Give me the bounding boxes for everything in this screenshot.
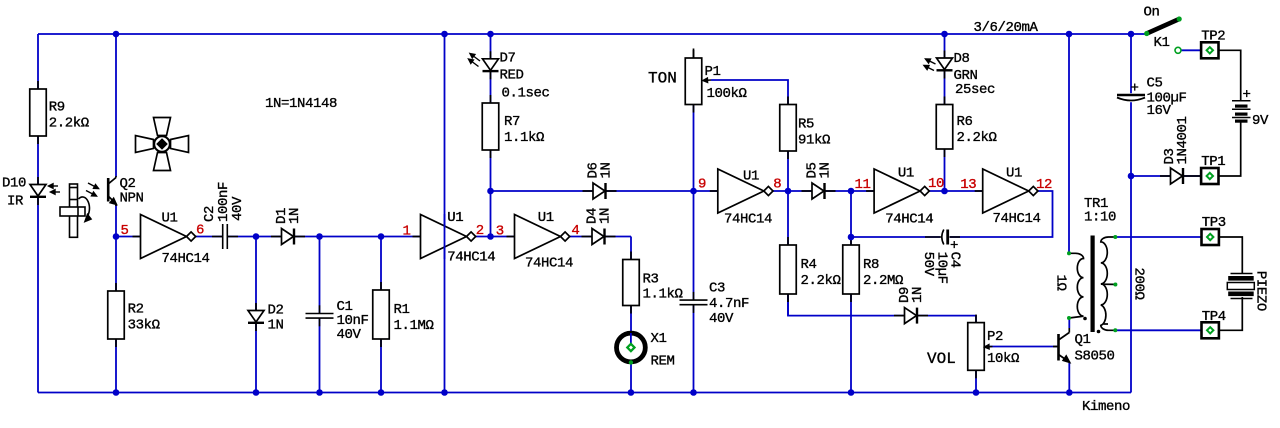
junction row1 C1: [316, 233, 323, 240]
Q2 light arrow 2: [86, 191, 97, 197]
svg-text:2.2MΩ: 2.2MΩ: [863, 273, 903, 289]
svg-text:R9: R9: [49, 100, 65, 116]
svg-text:TP2: TP2: [1201, 29, 1225, 45]
op-amp U1 inverter A pins 5-6: [133, 215, 196, 259]
junction row1 D2: [253, 233, 260, 240]
resistor R2: [108, 283, 125, 347]
svg-text:91kΩ: 91kΩ: [798, 133, 830, 149]
svg-text:TP4: TP4: [1202, 309, 1226, 325]
wire row2 pin12 elbow: [851, 191, 1053, 237]
junction ground D2: [253, 389, 260, 396]
svg-text:33kΩ: 33kΩ: [128, 318, 160, 334]
svg-text:1:10: 1:10: [1084, 210, 1116, 226]
svg-text:40V: 40V: [709, 311, 734, 327]
junction ground C1: [316, 389, 323, 396]
TR1 secondary top pin: [1113, 235, 1117, 239]
op-amp U1 inverter C pins 3-4: [507, 215, 570, 259]
svg-text:1N: 1N: [598, 208, 614, 224]
junction pin5 node: [113, 233, 120, 240]
svg-text:0.1sec: 0.1sec: [502, 86, 550, 102]
wire P1 wiper to R5: [711, 80, 788, 105]
junction D3 node: [1128, 173, 1135, 180]
wire P2 wiper to Q1 base: [985, 346, 1058, 348]
X1 bottom pin: [629, 360, 633, 364]
wire C1 column: [319, 237, 321, 393]
svg-text:D10: D10: [2, 176, 26, 192]
junction ground x444: [441, 389, 448, 396]
svg-text:1N4001: 1N4001: [1175, 116, 1191, 164]
svg-text:TON: TON: [648, 70, 677, 88]
piezo transducer: [1227, 274, 1254, 299]
diode D4: [582, 229, 616, 245]
wire R1 column: [380, 237, 382, 393]
transformer TR1 core: [1091, 236, 1095, 333]
D8 light arrow 2: [924, 66, 934, 71]
resistor R4: [780, 237, 797, 302]
diode D2: [248, 303, 264, 331]
junction pin8 node: [785, 188, 792, 195]
K1 open contact: [1175, 47, 1181, 53]
P1 wiper arrow: [703, 78, 711, 82]
TR1 primary bottom pin: [1067, 316, 1071, 320]
wire P2 bottom to ground: [975, 370, 977, 392]
TR1 secondary winding: [1101, 237, 1116, 330]
junction row3 R8 C4: [848, 234, 855, 241]
op-amp U1 inverter F pins 13-12: [975, 169, 1038, 213]
junction ground R2: [113, 389, 120, 396]
svg-text:TP3: TP3: [1202, 215, 1226, 231]
svg-text:R2: R2: [128, 302, 144, 318]
svg-text:1N: 1N: [268, 318, 284, 334]
wire ground column x1131: [1130, 34, 1132, 393]
svg-text:+: +: [1131, 81, 1139, 97]
resistor R1: [373, 282, 390, 347]
test point TP2: [1201, 42, 1218, 58]
svg-text:40V: 40V: [230, 196, 246, 221]
svg-text:P1: P1: [705, 64, 721, 80]
svg-text:U1: U1: [447, 210, 463, 226]
svg-text:R8: R8: [863, 257, 879, 273]
D7 light arrow 1: [470, 54, 480, 62]
P1 top stub: [693, 49, 695, 59]
D10 light arrow 2: [51, 190, 61, 194]
test point TP3: [1202, 229, 1219, 245]
wire row2 pin10 to pin13: [929, 190, 983, 192]
svg-text:74HC14: 74HC14: [525, 256, 573, 272]
junction pin9 node: [690, 188, 697, 195]
wire row2 pin8 to pin11: [773, 190, 874, 192]
svg-text:IR: IR: [7, 193, 24, 209]
resistor R6: [936, 97, 953, 158]
wire primary top column: [1068, 34, 1070, 253]
svg-text:6: 6: [196, 223, 204, 239]
svg-text:13: 13: [960, 177, 976, 193]
K1 lever tip pin: [1177, 16, 1182, 21]
D10 light arrow 1: [49, 184, 59, 188]
wire R3 X1 column: [630, 237, 632, 393]
potentiometer P2: [968, 315, 985, 379]
svg-text:D8: D8: [954, 51, 970, 67]
wire battery minus to TP1: [1219, 122, 1241, 176]
svg-text:4.7nF: 4.7nF: [709, 296, 749, 312]
transistor Q2 NPN photo: [108, 176, 116, 206]
svg-text:Q1: Q1: [1075, 332, 1091, 348]
TR1 primary top pin: [1067, 251, 1071, 255]
wire row2 D6 to pin9: [491, 190, 718, 192]
capacitor C1: [305, 305, 334, 326]
junction ground Q1: [1066, 389, 1073, 396]
svg-text:4: 4: [571, 223, 579, 239]
junction top rail x944: [941, 31, 948, 38]
svg-text:2.2kΩ: 2.2kΩ: [49, 116, 89, 132]
junction row2 R7 D6: [487, 188, 494, 195]
TR1 secondary bottom pin: [1113, 328, 1117, 332]
K1 pivot pin: [1144, 31, 1149, 36]
capacitor C4 electrolytic: [925, 229, 960, 245]
P2 wiper arrow: [985, 345, 993, 349]
svg-text:200Ω: 200Ω: [1131, 268, 1147, 300]
svg-text:U1: U1: [1006, 166, 1022, 182]
capacitor C3: [679, 292, 708, 313]
junction top rail x444: [441, 31, 448, 38]
svg-text:1Ω: 1Ω: [1053, 275, 1069, 291]
svg-text:1N=1N4148: 1N=1N4148: [265, 96, 337, 112]
junction ground R8: [848, 389, 855, 396]
svg-text:NPN: NPN: [120, 191, 144, 207]
svg-text:1.1kΩ: 1.1kΩ: [504, 130, 544, 146]
wire piezo to TP4: [1219, 297, 1243, 330]
svg-text:R5: R5: [798, 117, 814, 133]
svg-text:74HC14: 74HC14: [162, 251, 210, 267]
wire supply column x444: [444, 34, 446, 393]
svg-text:+: +: [1243, 87, 1251, 103]
wire left edge column x38: [37, 34, 39, 393]
svg-text:VOL: VOL: [927, 350, 956, 368]
diode D10 IR receiver: [30, 177, 46, 205]
diode D9: [894, 308, 928, 324]
wire D8 R6 column: [944, 34, 946, 191]
svg-text:PIEZO: PIEZO: [1253, 271, 1269, 311]
wire top rail V+: [38, 33, 1147, 35]
svg-text:U1: U1: [538, 210, 554, 226]
svg-text:5: 5: [121, 223, 129, 239]
resistor R8: [843, 237, 860, 302]
svg-text:P2: P2: [987, 329, 1003, 345]
svg-text:100kΩ: 100kΩ: [707, 86, 747, 102]
svg-text:TP1: TP1: [1201, 154, 1225, 170]
svg-text:74HC14: 74HC14: [885, 212, 933, 228]
svg-text:C3: C3: [709, 281, 725, 297]
svg-text:1.1kΩ: 1.1kΩ: [643, 287, 683, 303]
wire Q2 collector column: [115, 34, 117, 177]
svg-text:1N: 1N: [818, 162, 834, 178]
LED D8 green: [937, 51, 953, 79]
svg-text:1: 1: [403, 224, 411, 240]
wire D7 R7 column: [490, 34, 492, 237]
junction ground X1: [628, 389, 635, 396]
wire Q1 collector: [1068, 320, 1070, 329]
svg-text:11: 11: [855, 177, 871, 193]
svg-text:3: 3: [496, 224, 504, 240]
TR1 primary winding: [1069, 253, 1084, 318]
capacitor C5 electrolytic: [1117, 93, 1146, 102]
junction row1 R7: [487, 233, 494, 240]
junction ground R1: [378, 389, 385, 396]
diode D6: [583, 183, 617, 199]
op-amp U1 inverter B pins 1-2: [413, 215, 476, 259]
wire Q1 emitter to ground: [1068, 362, 1070, 393]
svg-text:R4: R4: [801, 257, 817, 273]
svg-text:74HC14: 74HC14: [993, 211, 1041, 227]
svg-text:2.2kΩ: 2.2kΩ: [801, 273, 841, 289]
svg-text:RED: RED: [500, 68, 524, 84]
svg-text:2.2kΩ: 2.2kΩ: [957, 130, 997, 146]
D8 light arrow 1: [926, 59, 936, 64]
wire row1 pin4 to D4: [566, 236, 631, 238]
battery 9V: [1232, 101, 1251, 123]
resistor R9: [30, 81, 47, 144]
wire row1 pin5 to inv1: [116, 236, 141, 238]
wire R5 R4 column: [787, 151, 789, 316]
TR1 primary polarity dot: [1083, 317, 1087, 321]
wire row1 pin2 to pin3: [476, 236, 515, 238]
svg-text:3/6/20mA: 3/6/20mA: [974, 20, 1039, 36]
fan icon: [136, 118, 189, 171]
wire bottom rail ground: [38, 392, 1131, 394]
wire TP2 to battery plus: [1219, 50, 1241, 100]
wire supply column x444 overlay: [444, 214, 446, 259]
junction ground C3: [690, 389, 697, 396]
svg-text:1N: 1N: [599, 162, 615, 178]
svg-text:X1: X1: [651, 331, 667, 347]
resistor R3: [623, 252, 640, 314]
test point TP1: [1201, 168, 1218, 184]
junction ground P2: [973, 389, 980, 396]
svg-text:8: 8: [773, 177, 781, 193]
svg-text:U1: U1: [743, 169, 759, 185]
svg-text:16V: 16V: [1147, 103, 1172, 119]
wire row1 pin6 to pin1: [195, 236, 420, 238]
svg-text:2: 2: [476, 223, 484, 239]
op-amp U1 inverter E pins 11-10: [866, 169, 929, 213]
wire R8 column: [850, 191, 852, 393]
svg-text:R6: R6: [957, 114, 973, 130]
potentiometer P1: [685, 50, 702, 113]
resistor R7: [482, 95, 499, 158]
svg-text:12: 12: [1036, 177, 1052, 193]
connector X1 REM: [617, 333, 646, 362]
svg-text:K1: K1: [1154, 35, 1170, 51]
D7 light arrow 2: [469, 59, 479, 67]
svg-text:1N: 1N: [910, 287, 926, 303]
svg-text:10kΩ: 10kΩ: [987, 351, 1019, 367]
svg-text:On: On: [1144, 5, 1160, 21]
wire R4 to D9 row: [788, 294, 976, 323]
svg-text:74HC14: 74HC14: [447, 250, 495, 266]
diode D1: [271, 229, 305, 245]
transistor Q1 S8050: [1053, 328, 1070, 362]
wire secondary bottom to TP4: [1115, 329, 1201, 331]
Q2 light arrow 1: [88, 183, 99, 189]
junction top rail x116: [113, 31, 120, 38]
svg-text:40V: 40V: [337, 327, 362, 343]
svg-text:R3: R3: [643, 272, 659, 288]
wire secondary top to TP3: [1115, 236, 1201, 238]
wire K1 to TP2: [1182, 49, 1202, 51]
svg-text:REM: REM: [651, 354, 675, 370]
test point TP4: [1202, 322, 1219, 338]
switch K1 lever: [1147, 19, 1180, 34]
junction top rail x1131: [1128, 31, 1135, 38]
screw adjust icon: [60, 184, 91, 237]
TR1 secondary polarity dot: [1097, 330, 1101, 334]
junction row1 R1: [378, 233, 385, 240]
svg-text:C5: C5: [1147, 76, 1163, 92]
svg-text:50V: 50V: [920, 252, 936, 277]
svg-text:1N: 1N: [287, 208, 303, 224]
wire Q2 emitter to R2 column: [115, 205, 117, 393]
svg-text:74HC14: 74HC14: [724, 212, 772, 228]
svg-text:U1: U1: [898, 166, 914, 182]
svg-text:1.1MΩ: 1.1MΩ: [394, 318, 434, 334]
svg-text:9V: 9V: [1252, 113, 1269, 129]
diode D3: [1160, 168, 1194, 184]
svg-text:R1: R1: [394, 302, 410, 318]
wire TP3 to piezo: [1219, 237, 1243, 274]
svg-text:Kimeno: Kimeno: [1082, 399, 1130, 415]
junction pin10 node: [941, 188, 948, 195]
svg-text:9: 9: [698, 177, 706, 193]
svg-text:U1: U1: [162, 211, 178, 227]
svg-text:S8050: S8050: [1075, 349, 1115, 365]
wire D2 column: [255, 237, 257, 393]
capacitor C2: [212, 223, 238, 250]
TR1 secondary tap: [1113, 283, 1117, 287]
junction top rail x490: [487, 31, 494, 38]
junction pin11 node: [848, 188, 855, 195]
resistor R5: [780, 97, 797, 160]
wire D3 row: [1131, 175, 1201, 177]
LED D7 red: [483, 51, 499, 79]
svg-text:25sec: 25sec: [955, 82, 995, 98]
diode D5: [802, 183, 836, 199]
D3 cathode stub to TP1: [1194, 175, 1201, 177]
svg-text:D7: D7: [500, 51, 516, 67]
svg-text:R7: R7: [504, 114, 520, 130]
wire P1 C3 column: [693, 105, 695, 393]
svg-text:D2: D2: [268, 303, 284, 319]
op-amp U1 inverter D pins 9-8: [710, 169, 773, 213]
junction top rail x1069: [1066, 31, 1073, 38]
